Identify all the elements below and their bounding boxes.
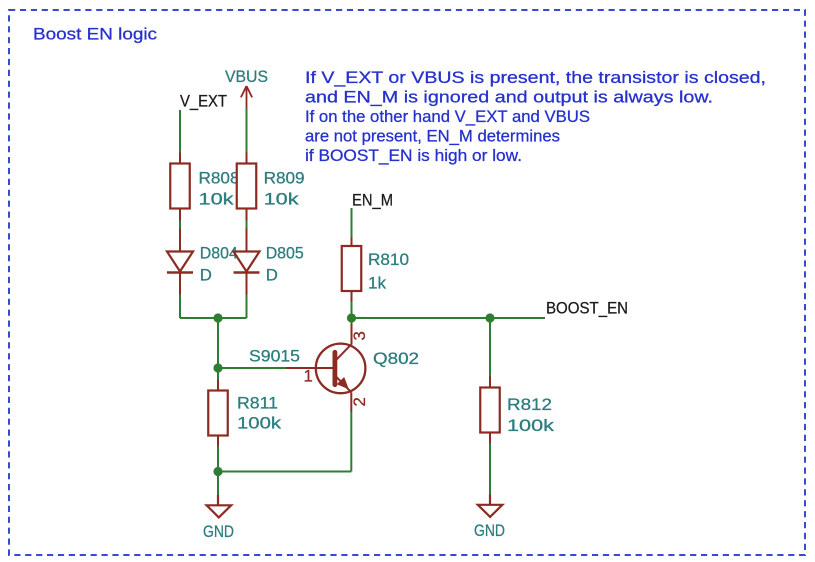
svg-text:D804: D804 [200,243,238,262]
svg-text:R812: R812 [507,395,552,414]
base bar [332,352,337,384]
junction [213,363,222,372]
collector pin 3 wire [351,318,353,324]
svg-text:D805: D805 [266,243,304,262]
wire R808 to D804 [179,221,181,229]
wire VBUS to R809 [246,109,248,153]
svg-text:10k: 10k [199,189,235,208]
resistor R810 [342,237,409,302]
resistor R811 [208,380,281,447]
resistor R808 [170,153,239,221]
diode D805 [234,229,304,295]
power symbol VBUS [241,86,252,109]
base pin 1 [286,367,333,369]
wire diode junction row [180,317,247,319]
wire base junction to R811 [217,368,219,380]
svg-text:are not present, EN_M determin: are not present, EN_M determines [305,127,560,146]
wire R812 to GND [489,444,491,495]
resistor R812 [480,377,555,444]
ground left [203,495,234,541]
emitter arrow [337,377,349,389]
junction [213,313,222,322]
svg-text:R810: R810 [368,250,409,269]
diode D804 [167,229,238,295]
junction [347,313,356,322]
junction [485,313,494,322]
svg-text:D: D [200,265,212,284]
emitter diagonal [335,376,351,393]
collector diagonal [335,344,351,361]
wire to left GND [217,472,219,496]
svg-text:10k: 10k [264,189,300,208]
svg-text:If V_EXT or VBUS is present, t: If V_EXT or VBUS is present, the transis… [305,68,766,87]
wire D805 down [246,295,248,319]
svg-text:100k: 100k [237,413,282,432]
emitter pin 2 wire [350,392,352,412]
svg-text:GND: GND [474,521,505,540]
wire EN_M to R810 [351,208,353,237]
svg-text:EN_M: EN_M [352,190,393,209]
svg-text:3: 3 [350,331,369,340]
transistor Q802 [249,318,419,412]
wire R809 to D805 [246,221,248,229]
svg-text:R811: R811 [237,393,278,412]
resistor R809 [237,153,305,221]
svg-text:100k: 100k [507,416,555,435]
wire V_EXT to R808 [179,110,181,153]
svg-text:Boost EN logic: Boost EN logic [33,24,157,43]
junction [213,467,222,476]
wire D804 down [179,295,181,319]
svg-text:S9015: S9015 [249,346,300,365]
svg-text:R809: R809 [264,168,305,187]
svg-text:Q802: Q802 [373,349,419,368]
wire R811 to bottom junction [217,447,219,472]
svg-text:and EN_M is ignored and output: and EN_M is ignored and output is always… [305,88,713,107]
wire junction down to base row [217,318,219,368]
svg-text:1: 1 [304,367,313,386]
svg-text:V_EXT: V_EXT [180,91,227,110]
svg-text:1k: 1k [368,273,387,292]
wire BOOST_EN row [352,317,546,319]
wire base row [218,367,286,369]
svg-text:R808: R808 [199,168,240,187]
wire R812 top [489,318,491,377]
svg-text:If on the other hand V_EXT and: If on the other hand V_EXT and VBUS [305,107,590,126]
wire emitter down [350,412,352,472]
svg-text:D: D [266,265,278,284]
svg-text:2: 2 [350,397,369,406]
svg-text:if BOOST_EN is high or low.: if BOOST_EN is high or low. [305,146,522,165]
svg-text:GND: GND [203,522,234,541]
ground right [474,495,505,540]
svg-text:VBUS: VBUS [225,67,268,86]
svg-text:BOOST_EN: BOOST_EN [546,298,628,317]
note text block [305,68,766,165]
wire bottom row [218,471,351,473]
wire R810 to junction [351,302,353,318]
body circle [316,344,366,394]
